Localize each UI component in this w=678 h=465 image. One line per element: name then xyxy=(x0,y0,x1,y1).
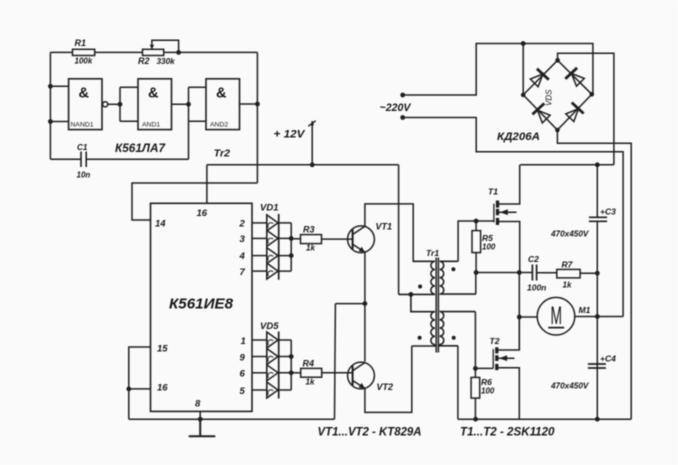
svg-text:100n: 100n xyxy=(527,283,546,293)
wire +12V feed down to center tap xyxy=(398,165,400,295)
diode VD1.1 xyxy=(267,215,278,231)
wire IC pin4 stub xyxy=(252,255,267,257)
wire ground rail left xyxy=(129,418,335,420)
gate AND2 xyxy=(206,79,240,130)
node Tr1 center tap xyxy=(409,292,414,297)
winding Tr1 primary lower xyxy=(411,294,435,346)
svg-text:14: 14 xyxy=(155,219,166,230)
svg-text:100: 100 xyxy=(482,243,496,252)
svg-text:9: 9 xyxy=(240,352,246,363)
svg-text:1: 1 xyxy=(241,336,246,347)
svg-text:~220V: ~220V xyxy=(380,102,413,114)
svg-text:10n: 10n xyxy=(77,171,91,180)
svg-text:470x450V: 470x450V xyxy=(550,382,590,391)
diode VD5.1 xyxy=(267,332,278,348)
transistor VT1 xyxy=(348,226,375,253)
polarity dot primary upper xyxy=(418,285,422,289)
wire VD1 anode rail xyxy=(266,214,268,280)
svg-text:+C4: +C4 xyxy=(600,354,616,364)
node C2 tap xyxy=(517,270,522,275)
gate AND1 xyxy=(138,79,172,130)
wire R2 wiper xyxy=(152,40,179,52)
wire AND1 output xyxy=(172,103,189,105)
node C4 bottom xyxy=(595,417,600,422)
node C3 top xyxy=(595,162,600,167)
T2 substrate arrow xyxy=(498,357,514,359)
wire NAND1 input stubs xyxy=(50,86,68,121)
svg-text:100k: 100k xyxy=(75,57,93,66)
IC U1 K561IE8 box xyxy=(151,203,253,411)
wire AND2 input bus xyxy=(189,87,207,121)
wire secondary lower riser to T2 gate xyxy=(475,312,493,369)
gate NAND1 xyxy=(69,79,102,130)
terminal ~220V bottom xyxy=(400,115,405,120)
svg-text:&: & xyxy=(216,86,227,102)
wire VD5 cathode rail xyxy=(278,332,280,399)
supply +12V arrow xyxy=(308,121,315,165)
wire bridge top node to right column xyxy=(558,53,614,165)
T1 drain wire xyxy=(499,165,520,204)
wire C3 column upper xyxy=(596,165,598,217)
wire IC pin2 stub xyxy=(252,222,267,224)
wire bridge bottom node to far right xyxy=(557,130,631,419)
node R2 wiper junction xyxy=(176,50,181,55)
polarity dot secondary upper xyxy=(451,267,455,271)
svg-text:R5: R5 xyxy=(482,233,493,243)
svg-text:К561ЛА7: К561ЛА7 xyxy=(115,141,166,155)
svg-text:T1...T2 - 2SK1120: T1...T2 - 2SK1120 xyxy=(460,427,555,439)
winding Tr1 secondary lower xyxy=(440,312,476,346)
svg-text:330k: 330k xyxy=(157,57,176,66)
svg-text:VD1: VD1 xyxy=(260,203,278,214)
T2 gate line xyxy=(492,349,494,368)
T2 source wire xyxy=(498,368,519,419)
wire secondary lower bottom to rail xyxy=(457,346,459,419)
svg-text:+C3: +C3 xyxy=(600,207,616,217)
svg-text:КД206А: КД206А xyxy=(497,131,540,143)
svg-text:R1: R1 xyxy=(75,38,87,48)
capacitor C4 xyxy=(588,364,606,368)
node motor right junction xyxy=(595,314,600,319)
diode bridge top-right bar xyxy=(565,68,577,79)
svg-text:8: 8 xyxy=(195,399,201,410)
wire IC pin3 stub xyxy=(252,237,267,239)
polarity dot primary lower xyxy=(418,336,422,340)
node AND2 output junction xyxy=(255,102,260,107)
T2 channel bars xyxy=(495,347,498,370)
wire IC pin1 stub xyxy=(252,339,267,341)
svg-text:470x450V: 470x450V xyxy=(550,230,590,239)
resistor R1 xyxy=(73,49,95,55)
diode bridge bottom-right triangle xyxy=(566,109,579,122)
bubble NAND1 output xyxy=(103,102,108,107)
node bridge left xyxy=(521,93,526,98)
wire feedback vertical from R2 to AND2 output down to pin14 link xyxy=(256,52,258,183)
wire motor left xyxy=(519,316,537,318)
diode bridge top-right triangle xyxy=(572,74,585,87)
svg-text:1k: 1k xyxy=(306,377,315,386)
core Tr1 xyxy=(436,258,438,353)
node pin16 bracket junction xyxy=(126,387,131,392)
svg-text:&: & xyxy=(148,86,159,102)
scan curl marks on VD diodes xyxy=(268,223,273,395)
node NAND1 input B xyxy=(48,119,53,124)
T1 gate line xyxy=(493,204,495,223)
svg-text:VD5: VD5 xyxy=(260,321,279,332)
svg-text:VT2: VT2 xyxy=(377,382,394,392)
wire IC pin5 stub xyxy=(252,389,267,391)
diode bridge top-left triangle xyxy=(530,74,543,87)
wire C2 to R7 xyxy=(537,272,557,274)
wire VT2 emitter to transformer return xyxy=(365,346,412,412)
wire T1-T2 midpoint vertical xyxy=(518,273,520,351)
T2 drain wire xyxy=(498,317,519,350)
svg-text:1k: 1k xyxy=(563,281,572,290)
wire C3 column lower xyxy=(596,222,598,419)
wire oscillator bottom with C1 xyxy=(50,121,188,159)
wire pin14 link from feedback xyxy=(132,183,257,220)
wire VD1 output bus xyxy=(279,223,292,271)
node bridge top xyxy=(555,58,560,63)
svg-text:&: & xyxy=(79,86,90,102)
ground symbol xyxy=(189,419,216,436)
node VD1 bus b xyxy=(289,253,294,258)
svg-text:C2: C2 xyxy=(528,254,539,264)
svg-text:15: 15 xyxy=(157,344,168,355)
wire midpoint to ground rail xyxy=(335,304,365,420)
svg-text:Tr1: Tr1 xyxy=(426,248,439,258)
wire R7 to right column xyxy=(580,272,597,274)
svg-text:R2: R2 xyxy=(138,56,150,66)
svg-text:NAND1: NAND1 xyxy=(71,122,94,129)
T1 channel bars xyxy=(496,201,499,226)
capacitor C3 xyxy=(589,217,607,221)
resistor R4 xyxy=(291,372,301,374)
wire R3 to VT1 base xyxy=(322,238,353,240)
wire pins 15 and 16 ground bracket xyxy=(129,347,151,419)
wire left rail of oscillator xyxy=(49,52,51,159)
svg-text:16: 16 xyxy=(197,208,208,219)
svg-text:2: 2 xyxy=(239,218,246,229)
diode bridge bottom-left triangle xyxy=(538,110,551,123)
node R5 bottom xyxy=(474,270,479,275)
node VD1 bus a xyxy=(289,236,294,241)
diode VD1.3 xyxy=(267,248,278,264)
resistor R6 xyxy=(474,368,476,419)
svg-text:AND1: AND1 xyxy=(142,122,160,129)
diode VD1.4 xyxy=(267,263,278,279)
wire secondary upper lower riser xyxy=(475,273,477,295)
svg-text:7: 7 xyxy=(240,267,246,278)
wire R5 node to C2 xyxy=(476,272,532,274)
svg-text:VT1: VT1 xyxy=(376,221,393,231)
node NAND1 output junction xyxy=(118,102,123,107)
svg-text:6: 6 xyxy=(240,369,246,380)
potentiometer R2 xyxy=(143,49,164,55)
wire 220V bottom to motor column xyxy=(403,118,623,317)
svg-text:R7: R7 xyxy=(562,259,574,269)
node R6 bottom xyxy=(473,417,478,422)
wire VT1 emitter down to midpoint xyxy=(364,252,366,361)
wire VD1 cathode rail xyxy=(278,214,280,280)
winding Tr1 primary upper xyxy=(399,261,435,294)
svg-text:4: 4 xyxy=(239,251,246,262)
arrowhead VT1 emitter xyxy=(359,247,365,253)
wire 220V top to bridge xyxy=(403,44,593,96)
svg-text:T2: T2 xyxy=(490,336,500,346)
node bridge ac top xyxy=(521,41,526,46)
wire VD5 anode rail xyxy=(266,332,268,399)
bridge VDS arms xyxy=(523,60,592,130)
wire VT1 collector up and over to Tr1 xyxy=(365,204,435,261)
diode bridge top-left bar xyxy=(537,69,549,80)
svg-text:16: 16 xyxy=(157,383,168,394)
diode bridge bottom-right bar xyxy=(572,103,584,114)
svg-text:M1: M1 xyxy=(579,305,591,315)
node R5 top xyxy=(474,219,479,224)
wire IC pin6 stub xyxy=(252,372,267,374)
node +12V rail junction xyxy=(310,162,315,167)
terminal ~220V top xyxy=(400,93,405,98)
winding Tr1 secondary upper xyxy=(440,261,476,294)
node R7 right xyxy=(595,271,600,276)
node motor left tap xyxy=(517,315,522,320)
svg-text:VDS: VDS xyxy=(545,89,554,106)
wire AND2 output xyxy=(240,103,258,105)
svg-text:5: 5 xyxy=(240,386,246,397)
node VD5 bus b xyxy=(289,370,294,375)
svg-text:К561ИЕ8: К561ИЕ8 xyxy=(169,296,234,313)
svg-text:100: 100 xyxy=(481,386,495,395)
capacitor C1 xyxy=(81,152,86,168)
svg-text:AND2: AND2 xyxy=(210,122,228,129)
T1 source wire xyxy=(499,222,520,273)
node VT1/VT2 midpoint xyxy=(363,301,368,306)
svg-text:R4: R4 xyxy=(303,358,315,368)
svg-text:T1: T1 xyxy=(488,187,498,197)
capacitor C2 xyxy=(532,265,536,281)
arrowhead +12V xyxy=(310,120,314,125)
resistor R5 xyxy=(475,221,477,273)
svg-text:R3: R3 xyxy=(303,225,315,235)
diode bridge bottom-left bar xyxy=(532,103,544,114)
svg-text:+ 12V: + 12V xyxy=(274,129,307,141)
node ground junction xyxy=(198,417,203,422)
wire VD5 output bus xyxy=(279,340,292,390)
diode VD5.3 xyxy=(267,365,278,381)
polarity dot secondary lower xyxy=(452,336,456,340)
wire bridge left node riser xyxy=(522,44,524,95)
wire motor right xyxy=(575,316,623,318)
diode VD5.2 xyxy=(267,349,278,365)
arrowhead R2 wiper xyxy=(150,45,154,50)
resistor R7 xyxy=(557,269,580,278)
node bridge bottom xyxy=(555,128,560,133)
svg-text:3: 3 xyxy=(240,234,246,245)
transistor VT2 xyxy=(348,362,375,389)
wire NAND1 output xyxy=(108,103,120,105)
motor M1 xyxy=(537,297,575,335)
svg-text:VT1...VT2 - KT829A: VT1...VT2 - KT829A xyxy=(318,427,422,439)
wire IC pin7 stub xyxy=(252,270,267,272)
node NAND1 input A xyxy=(48,84,53,89)
arrowhead VT2 emitter xyxy=(359,383,365,389)
resistor R3 xyxy=(291,238,300,240)
node bridge right xyxy=(590,92,595,97)
wire right rail xyxy=(520,164,614,166)
svg-text:M: M xyxy=(551,302,563,330)
svg-text:C1: C1 xyxy=(77,143,88,152)
wire secondary upper riser to T1 gate xyxy=(458,221,494,261)
diode VD5.4 xyxy=(267,382,278,398)
svg-text:Tr2: Tr2 xyxy=(214,148,230,160)
T1 substrate arrow xyxy=(499,211,517,213)
node AND1 output junction xyxy=(186,102,191,107)
wire AND1 input bus xyxy=(120,87,138,121)
wire R4 to VT2 base xyxy=(322,372,353,374)
node T2 gate xyxy=(473,366,478,371)
wire IC pin9 stub xyxy=(252,356,267,358)
wire +12V rail xyxy=(207,165,399,204)
wire top rail of oscillator xyxy=(50,51,257,53)
node VD5 bus a xyxy=(289,354,294,359)
wire pin 8 stub xyxy=(199,411,201,419)
wire bottom rail right xyxy=(458,418,631,420)
diode VD1.2 xyxy=(267,230,278,246)
svg-text:1k: 1k xyxy=(306,244,315,253)
